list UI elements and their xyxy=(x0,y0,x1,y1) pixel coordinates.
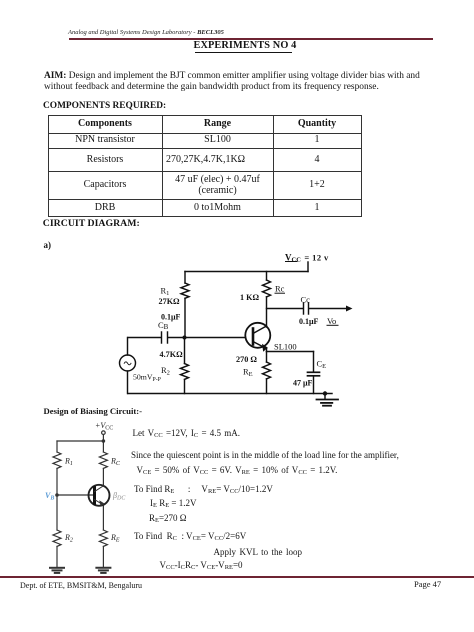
svg-text:CB: CB xyxy=(158,320,169,331)
svg-text:R2: R2 xyxy=(161,365,170,377)
svg-text:RE: RE xyxy=(243,367,253,379)
svg-text:47 μF: 47 μF xyxy=(293,379,313,388)
svg-text:0.1μF: 0.1μF xyxy=(299,317,319,326)
svg-text:R1: R1 xyxy=(161,286,170,298)
svg-text:βDC: βDC xyxy=(112,491,126,502)
svg-text:VB: VB xyxy=(45,491,54,502)
svg-text:+VCC: +VCC xyxy=(95,421,113,432)
svg-text:R2: R2 xyxy=(64,533,73,544)
svg-text:RE: RE xyxy=(110,533,120,544)
svg-text:CE: CE xyxy=(317,359,327,371)
svg-text:270 Ω: 270 Ω xyxy=(236,355,257,364)
svg-text:Vo: Vo xyxy=(327,316,336,326)
svg-text:Cc: Cc xyxy=(301,295,311,305)
svg-text:1 KΩ: 1 KΩ xyxy=(240,293,260,302)
svg-text:RC: RC xyxy=(110,457,121,468)
svg-text:4.7KΩ: 4.7KΩ xyxy=(160,350,184,359)
svg-text:R1: R1 xyxy=(64,457,73,468)
svg-text:Rc: Rc xyxy=(275,284,285,294)
svg-text:50mVP-P: 50mVP-P xyxy=(133,373,161,384)
svg-text:0.1μF: 0.1μF xyxy=(161,313,181,322)
svg-text:SL100: SL100 xyxy=(274,342,297,352)
svg-text:27KΩ: 27KΩ xyxy=(159,297,181,306)
